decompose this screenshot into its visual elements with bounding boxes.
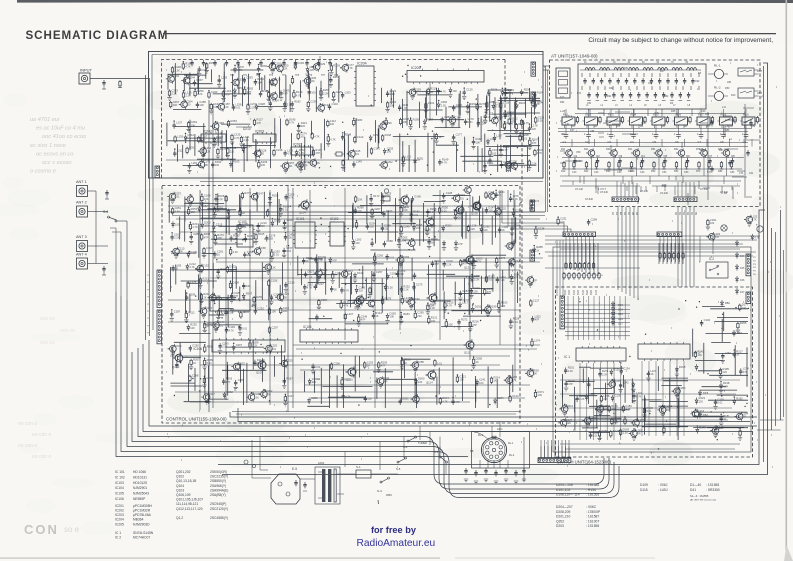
svg-text:47P: 47P bbox=[636, 432, 641, 436]
resistor bbox=[565, 262, 567, 270]
svg-text:C207: C207 bbox=[272, 325, 279, 329]
svg-text:C212: C212 bbox=[188, 133, 195, 137]
resistor bbox=[357, 314, 368, 326]
svg-text:220: 220 bbox=[723, 370, 728, 374]
cap ant 4 bbox=[102, 266, 105, 272]
svg-text:NJM2901: NJM2901 bbox=[133, 486, 147, 490]
resistor bbox=[572, 161, 576, 169]
din cap row bbox=[464, 468, 526, 484]
svg-text:for free by: for free by bbox=[371, 525, 417, 535]
svg-text:R212: R212 bbox=[567, 404, 574, 408]
svg-text:C215: C215 bbox=[288, 280, 295, 284]
svg-text:1K: 1K bbox=[367, 364, 370, 368]
diode bbox=[441, 115, 451, 123]
svg-text:R82: R82 bbox=[718, 170, 723, 173]
svg-text:R272: R272 bbox=[461, 317, 468, 321]
resistor bbox=[205, 61, 216, 73]
transistor bbox=[559, 404, 573, 416]
capacitor bbox=[531, 314, 541, 322]
resistor bbox=[527, 159, 537, 170]
resistor bbox=[326, 134, 336, 146]
mid horizontal bus y258 bbox=[213, 257, 543, 259]
transistor Q5 bbox=[654, 148, 668, 158]
svg-text:C218: C218 bbox=[276, 148, 283, 152]
mid right diode column bbox=[736, 252, 746, 295]
svg-text:ANT 1: ANT 1 bbox=[76, 180, 87, 184]
resistor bbox=[306, 100, 317, 112]
resistor bbox=[258, 160, 268, 169]
svg-text:D47: D47 bbox=[740, 291, 745, 294]
right connector CN7 bbox=[746, 254, 751, 276]
sweep wires to CN5 bbox=[502, 190, 571, 232]
resistor bbox=[485, 100, 496, 112]
transistor Q1xx bbox=[399, 194, 409, 206]
svg-text:1K: 1K bbox=[203, 295, 206, 299]
svg-text:10K: 10K bbox=[173, 103, 178, 107]
resistor bbox=[611, 417, 621, 426]
diode bbox=[442, 240, 446, 250]
resistor bbox=[439, 396, 449, 405]
svg-text:2.2K: 2.2K bbox=[223, 105, 229, 109]
at right column parts bbox=[710, 120, 752, 172]
resistor grid under CN5 extra bbox=[563, 252, 684, 280]
svg-text:IC205: IC205 bbox=[115, 522, 124, 526]
svg-text:4.7K: 4.7K bbox=[625, 407, 631, 411]
capacitor bbox=[196, 100, 207, 108]
resistor bbox=[199, 292, 210, 304]
capacitor bbox=[283, 148, 293, 156]
ic IC202 bbox=[201, 134, 226, 142]
svg-text:S-2: S-2 bbox=[709, 257, 714, 261]
svg-text:C225: C225 bbox=[503, 101, 510, 105]
capacitor bbox=[265, 233, 276, 241]
transistor bbox=[406, 297, 420, 309]
resistor bbox=[174, 134, 184, 143]
capacitor bbox=[409, 210, 420, 222]
transistor Q1xx bbox=[454, 204, 464, 216]
resistor bbox=[662, 161, 666, 169]
relay RL1 bbox=[560, 113, 577, 129]
capacitor bbox=[172, 121, 182, 129]
svg-text:C9: C9 bbox=[743, 140, 747, 144]
capacitor bbox=[452, 103, 463, 111]
capacitor bbox=[442, 191, 453, 203]
transistor Q1xx bbox=[471, 200, 481, 212]
svg-text:C239: C239 bbox=[297, 61, 304, 65]
at left connector bbox=[556, 68, 570, 98]
resistor bbox=[595, 161, 599, 169]
capacitor bbox=[328, 102, 339, 110]
resistor bbox=[370, 207, 381, 219]
capacitor bbox=[457, 317, 468, 329]
diode D39 bbox=[715, 425, 725, 432]
resistor bbox=[399, 224, 410, 236]
svg-text:IC202: IC202 bbox=[115, 509, 124, 513]
transistor bbox=[246, 392, 260, 402]
capacitor bbox=[222, 377, 233, 385]
svg-text:TP3: TP3 bbox=[269, 75, 274, 77]
transistor bbox=[629, 428, 643, 440]
svg-text:R148: R148 bbox=[385, 133, 392, 137]
capacitor bbox=[364, 396, 373, 402]
svg-text:100: 100 bbox=[261, 163, 266, 167]
diode bbox=[466, 102, 477, 114]
capacitor C3 bbox=[608, 132, 614, 144]
diode bbox=[413, 223, 423, 231]
svg-text:D115: D115 bbox=[640, 488, 648, 492]
svg-text:47P: 47P bbox=[367, 397, 372, 401]
svg-text:AT UNIT(157-1049-00): AT UNIT(157-1049-00) bbox=[551, 54, 598, 59]
resistor bbox=[720, 161, 724, 169]
svg-text:4.7K: 4.7K bbox=[228, 311, 234, 315]
svg-text:47P: 47P bbox=[458, 242, 463, 246]
svg-text:47P: 47P bbox=[247, 90, 252, 94]
svg-text:so e: so e bbox=[64, 525, 80, 534]
svg-text:C197: C197 bbox=[206, 246, 213, 250]
svg-text:Q103: Q103 bbox=[256, 371, 263, 375]
resistor bbox=[186, 146, 196, 155]
svg-text:D191: D191 bbox=[475, 305, 482, 309]
capacitor bbox=[620, 366, 631, 374]
at scattered labels bbox=[560, 67, 754, 201]
ic IC201 bbox=[291, 147, 313, 155]
capacitor bbox=[483, 112, 493, 124]
capacitor bbox=[366, 222, 377, 230]
svg-text:R52: R52 bbox=[651, 170, 656, 173]
svg-text:D123: D123 bbox=[613, 429, 620, 433]
resistor bbox=[707, 161, 711, 169]
svg-text:S-5: S-5 bbox=[396, 467, 401, 471]
resistor bbox=[208, 90, 218, 99]
svg-text:D67: D67 bbox=[719, 426, 724, 430]
relay RL9 bbox=[740, 113, 757, 129]
capacitor bbox=[282, 246, 293, 258]
capacitor bbox=[510, 259, 521, 267]
svg-text:R71: R71 bbox=[577, 92, 582, 95]
wire bundle AT to switch bbox=[617, 207, 619, 290]
at mid caps row2 bbox=[573, 158, 734, 164]
svg-text:D190: D190 bbox=[414, 194, 421, 198]
svg-text:220: 220 bbox=[418, 380, 423, 384]
resistor bbox=[471, 357, 482, 369]
transistor Q203 bbox=[295, 160, 304, 170]
svg-text:0.01: 0.01 bbox=[468, 120, 474, 124]
diode bbox=[229, 159, 239, 167]
svg-text:C52: C52 bbox=[655, 112, 660, 115]
svg-text:Q112,113,117,120: Q112,113,117,120 bbox=[176, 507, 203, 511]
wire mesh boardA-rightcol bbox=[481, 88, 540, 165]
diode bbox=[719, 381, 730, 393]
at inter-row wires bbox=[565, 108, 760, 205]
svg-text:NB: NB bbox=[470, 450, 474, 453]
svg-text:: 1S1555: : 1S1555 bbox=[586, 493, 599, 497]
capacitor bbox=[510, 224, 521, 236]
wire boardA bbox=[166, 159, 420, 161]
svg-text:C53: C53 bbox=[662, 171, 667, 174]
resistor bbox=[583, 262, 585, 270]
svg-text:C32: C32 bbox=[566, 115, 571, 118]
diode bbox=[226, 209, 230, 219]
svg-text:1K: 1K bbox=[476, 360, 479, 364]
diode bbox=[386, 272, 396, 280]
capacitor bbox=[719, 414, 730, 426]
parts list left col2 bbox=[176, 470, 228, 520]
svg-text:C6: C6 bbox=[675, 140, 679, 144]
xtal X1 bbox=[383, 196, 390, 201]
ic IC106 long box bbox=[212, 340, 285, 352]
svg-text:0.01: 0.01 bbox=[271, 347, 277, 351]
svg-text:4.7K: 4.7K bbox=[229, 328, 235, 332]
svg-text:10K: 10K bbox=[315, 161, 320, 165]
capacitor bbox=[279, 204, 290, 216]
capacitor bbox=[471, 137, 482, 149]
svg-text:220: 220 bbox=[186, 103, 191, 107]
svg-text:C280: C280 bbox=[311, 396, 318, 400]
transistor bbox=[353, 297, 367, 309]
svg-text:2.2K: 2.2K bbox=[233, 250, 239, 254]
outer frame 1 bbox=[218, 210, 765, 465]
svg-text:Q104: Q104 bbox=[176, 484, 184, 488]
svg-text:C83: C83 bbox=[730, 171, 735, 174]
resistor bbox=[254, 232, 265, 244]
diode bbox=[423, 117, 434, 129]
relay RL7 bbox=[695, 113, 712, 129]
svg-text:RL-2: RL-2 bbox=[714, 86, 721, 90]
svg-text:D91: D91 bbox=[607, 95, 612, 98]
svg-text:TP6: TP6 bbox=[308, 75, 313, 77]
transistor bbox=[463, 185, 472, 195]
svg-text:4.7K: 4.7K bbox=[185, 65, 191, 69]
diode bbox=[480, 225, 490, 233]
svg-text:ANT: ANT bbox=[757, 69, 763, 73]
resistor bbox=[534, 390, 544, 399]
svg-text:4.7K: 4.7K bbox=[754, 235, 760, 239]
resistor bbox=[171, 65, 181, 74]
svg-text:2.2K: 2.2K bbox=[566, 421, 572, 425]
capacitor bbox=[253, 358, 263, 366]
transistor bbox=[447, 115, 461, 127]
capacitor bbox=[500, 160, 511, 168]
capacitor bbox=[302, 256, 313, 264]
svg-text:1K: 1K bbox=[723, 417, 726, 421]
diode bbox=[476, 378, 486, 386]
svg-text:47P: 47P bbox=[532, 141, 537, 145]
svg-text:NE555P: NE555P bbox=[133, 497, 146, 501]
diode bbox=[355, 285, 365, 293]
svg-text:2SA994A(E): 2SA994A(E) bbox=[210, 488, 228, 492]
svg-text:R108: R108 bbox=[679, 365, 686, 369]
svg-text:IC 2: IC 2 bbox=[115, 536, 121, 540]
transistor Q1xx bbox=[256, 359, 266, 371]
capacitor bbox=[254, 306, 265, 314]
svg-text:IC 102: IC 102 bbox=[115, 475, 125, 479]
svg-text:IC203: IC203 bbox=[255, 130, 264, 134]
transistor bbox=[252, 246, 266, 256]
interconnect boardA-AT bbox=[545, 66, 547, 212]
capacitor bbox=[713, 398, 724, 410]
capacitor bbox=[256, 64, 267, 76]
svg-text:4.7K: 4.7K bbox=[330, 137, 336, 141]
svg-text:4.7K: 4.7K bbox=[307, 286, 313, 290]
resistor bbox=[340, 300, 350, 309]
speaker E-5 bbox=[271, 474, 300, 504]
svg-text:CON: CON bbox=[24, 522, 59, 537]
capacitor bbox=[700, 318, 711, 326]
resistor bbox=[311, 132, 320, 140]
relay RL4 bbox=[628, 113, 645, 129]
capacitor bbox=[238, 325, 248, 335]
diode D41 bbox=[733, 330, 743, 337]
svg-text:10K: 10K bbox=[358, 198, 363, 202]
capacitor bbox=[397, 235, 408, 247]
svg-text:IC102: IC102 bbox=[330, 217, 339, 221]
svg-text:L11: L11 bbox=[722, 106, 726, 109]
svg-text:ANT: ANT bbox=[757, 91, 763, 95]
svg-text:C86: C86 bbox=[590, 130, 595, 133]
svg-text:47P: 47P bbox=[381, 364, 386, 368]
svg-text:W51: W51 bbox=[585, 290, 588, 296]
svg-text:R154: R154 bbox=[537, 90, 544, 94]
mid horizontal bus y212 bbox=[168, 211, 545, 213]
svg-text:RL-1: RL-1 bbox=[478, 434, 484, 437]
svg-text:C63: C63 bbox=[684, 171, 689, 174]
svg-text:: 1S1555: : 1S1555 bbox=[706, 483, 719, 487]
top scan edge bbox=[17, 0, 793, 3]
diode bbox=[234, 65, 244, 73]
svg-text:Q109: Q109 bbox=[454, 216, 461, 220]
resistor bbox=[529, 199, 540, 211]
svg-text:C274: C274 bbox=[206, 306, 213, 310]
capacitor bbox=[483, 161, 494, 173]
svg-text:Q1,2: Q1,2 bbox=[176, 516, 183, 520]
svg-text:ACC: ACC bbox=[497, 427, 503, 431]
resistor bbox=[738, 428, 742, 440]
transistor bbox=[472, 201, 481, 211]
svg-text:1K: 1K bbox=[502, 228, 505, 232]
svg-text:HD10131: HD10131 bbox=[133, 475, 147, 479]
resistor bbox=[574, 262, 576, 270]
mid verticals x210 bbox=[208, 100, 210, 412]
resistor bbox=[187, 207, 197, 216]
transistor bbox=[509, 161, 518, 171]
svg-text:D13: D13 bbox=[731, 94, 736, 97]
diode bbox=[454, 240, 463, 250]
svg-text:100: 100 bbox=[488, 209, 493, 213]
connector CN6 row bbox=[657, 232, 682, 237]
svg-text:D97: D97 bbox=[737, 331, 742, 335]
switch unit inner solid box bbox=[553, 247, 751, 452]
svg-text:2.2K: 2.2K bbox=[579, 397, 585, 401]
svg-text:R32: R32 bbox=[606, 170, 611, 173]
svg-text:10K: 10K bbox=[448, 322, 453, 326]
capacitor bbox=[225, 325, 236, 333]
svg-text:C134: C134 bbox=[512, 394, 519, 398]
svg-text:Q114: Q114 bbox=[426, 381, 433, 385]
connector mid CN9 bbox=[530, 200, 535, 211]
resistor bbox=[500, 101, 510, 110]
svg-text:RadioAmateur.eu: RadioAmateur.eu bbox=[357, 538, 436, 549]
transistor bbox=[375, 376, 389, 388]
capacitor bbox=[612, 92, 616, 101]
transistor bbox=[483, 305, 497, 317]
svg-text:2.2K: 2.2K bbox=[270, 266, 276, 270]
svg-text:C13: C13 bbox=[572, 171, 577, 174]
capacitor bbox=[462, 88, 473, 100]
svg-text:C239: C239 bbox=[206, 376, 213, 380]
svg-text:0.01: 0.01 bbox=[593, 434, 599, 438]
svg-text:10K: 10K bbox=[191, 210, 196, 214]
wire mesh boardA-botright bbox=[393, 133, 539, 172]
resistor bbox=[249, 340, 259, 349]
diode bbox=[585, 392, 595, 400]
svg-text:C156: C156 bbox=[271, 278, 278, 282]
diode bbox=[414, 377, 424, 385]
svg-text:C125: C125 bbox=[466, 88, 473, 92]
mid verticals x290 bbox=[287, 185, 289, 412]
svg-text:R62: R62 bbox=[674, 170, 679, 173]
resistor bbox=[557, 217, 567, 226]
parts list right block bbox=[556, 483, 720, 528]
svg-text:C273: C273 bbox=[416, 282, 423, 286]
capacitor bbox=[618, 381, 629, 393]
svg-text:C202: C202 bbox=[386, 160, 393, 164]
svg-text:R251: R251 bbox=[417, 156, 424, 160]
svg-text:D14: D14 bbox=[618, 308, 623, 312]
svg-text:4.7K: 4.7K bbox=[175, 209, 181, 213]
capacitor bbox=[431, 259, 442, 267]
mid horizontal bus y345 bbox=[293, 344, 540, 346]
transistor bbox=[211, 320, 225, 332]
relay RL-A2 bbox=[714, 91, 723, 100]
transistor bbox=[595, 404, 609, 416]
capacitor bbox=[329, 75, 340, 87]
svg-text:S-6: S-6 bbox=[103, 210, 108, 214]
svg-text:: 1S1555: : 1S1555 bbox=[586, 524, 599, 528]
resistor bbox=[331, 90, 342, 102]
capacitor bbox=[229, 234, 240, 242]
capacitor bbox=[399, 397, 410, 405]
diode bbox=[520, 88, 530, 96]
capacitor bbox=[400, 284, 411, 292]
svg-text:R253: R253 bbox=[231, 119, 238, 123]
transformer T601 bbox=[322, 469, 325, 502]
svg-text:100: 100 bbox=[175, 223, 180, 227]
resistor bbox=[694, 350, 704, 359]
svg-text:C217: C217 bbox=[287, 394, 294, 398]
resistor bbox=[424, 101, 435, 113]
transistor bbox=[198, 146, 212, 158]
switch S-1 relay box bbox=[356, 470, 371, 478]
svg-text:: SR3350: : SR3350 bbox=[706, 488, 720, 492]
resistor bbox=[381, 296, 391, 305]
capacitor bbox=[216, 267, 227, 279]
svg-text:R103: R103 bbox=[333, 63, 340, 67]
resistor bbox=[453, 208, 464, 220]
capacitor bbox=[314, 255, 325, 263]
svg-text:4.7K: 4.7K bbox=[343, 304, 349, 308]
capacitor bbox=[315, 314, 318, 320]
resistor bbox=[241, 191, 251, 200]
switch S-3 din bbox=[439, 456, 441, 458]
svg-text:C8: C8 bbox=[720, 140, 724, 144]
diode bbox=[353, 271, 364, 283]
transistor bbox=[525, 368, 539, 378]
capacitor bbox=[243, 75, 254, 83]
svg-text:100: 100 bbox=[479, 381, 484, 385]
switch bottom connector emphasis bbox=[538, 457, 571, 459]
svg-text:D16: D16 bbox=[618, 317, 623, 321]
switch unit horizontals bbox=[560, 379, 740, 381]
